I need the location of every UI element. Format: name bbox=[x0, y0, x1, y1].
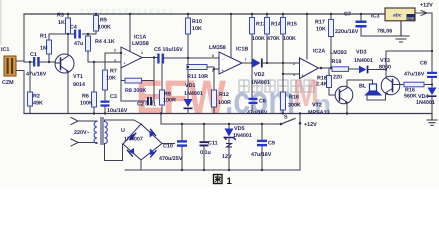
transformer T bbox=[94, 118, 107, 145]
svg-text:IC3: IC3 bbox=[371, 14, 379, 20]
svg-text:2: 2 bbox=[114, 49, 116, 53]
electret microphone IC1 bbox=[1, 47, 24, 86]
wire C5 to IC1B - input bbox=[164, 57, 218, 59]
svg-text:C10: C10 bbox=[163, 144, 173, 150]
op-amp IC1A LM358 bbox=[114, 35, 149, 69]
svg-text:47u: 47u bbox=[74, 41, 83, 47]
svg-text:6: 6 bbox=[212, 54, 214, 58]
svg-text:10u/16V: 10u/16V bbox=[107, 108, 128, 114]
svg-text:C6: C6 bbox=[259, 99, 266, 105]
wire IC1B V+ stub bbox=[230, 14, 232, 57]
svg-text:10K: 10K bbox=[192, 26, 202, 32]
wire VD3 to node A bbox=[369, 69, 387, 71]
svg-text:MPSA13: MPSA13 bbox=[308, 110, 330, 116]
resistor R8 300K bbox=[121, 78, 154, 94]
svg-text:S: S bbox=[284, 115, 288, 121]
resistor R16 560K bbox=[393, 82, 433, 99]
svg-text:100R: 100R bbox=[163, 98, 176, 104]
ground bottom right bbox=[427, 114, 437, 126]
svg-text:2: 2 bbox=[293, 62, 295, 66]
svg-text:470u/25V: 470u/25V bbox=[159, 156, 183, 162]
svg-text:1N4001: 1N4001 bbox=[416, 100, 435, 106]
wire ground rail bbox=[24, 113, 432, 115]
svg-text:CZM: CZM bbox=[2, 80, 14, 86]
wire R10 node down bbox=[187, 58, 189, 99]
resistor R6 100K bbox=[80, 61, 97, 115]
wire R4 to IC1A + input bbox=[88, 61, 121, 63]
svg-text:abc: abc bbox=[393, 13, 402, 19]
resistor R1 1M bbox=[40, 34, 52, 64]
svg-text:R1: R1 bbox=[40, 34, 47, 40]
svg-text:7: 7 bbox=[245, 58, 247, 62]
transistor VT1 9014 bbox=[55, 54, 85, 88]
svg-text:100K: 100K bbox=[252, 36, 265, 42]
capacitor C10 470u/25V bbox=[159, 123, 187, 171]
svg-text:IC2A: IC2A bbox=[313, 49, 325, 55]
resistor R19 220 bbox=[331, 59, 359, 81]
svg-text:+: + bbox=[302, 74, 304, 78]
wire left vertical from rail to mic bbox=[23, 14, 25, 114]
svg-text:IC1B: IC1B bbox=[236, 47, 248, 53]
svg-text:R5: R5 bbox=[100, 18, 107, 24]
svg-text:220: 220 bbox=[333, 75, 342, 81]
svg-text:1N4001: 1N4001 bbox=[251, 80, 270, 86]
resistor R3 1K bbox=[57, 13, 71, 36]
svg-text:+: + bbox=[222, 69, 224, 73]
svg-text:R10: R10 bbox=[192, 19, 202, 25]
diode VD2 1N4001 bbox=[251, 59, 270, 87]
wire PSU ground rail bbox=[125, 114, 300, 171]
svg-text:+12V: +12V bbox=[304, 122, 317, 128]
voltage regulator IC3 78L06 bbox=[371, 8, 415, 35]
svg-text:10K: 10K bbox=[106, 76, 116, 82]
svg-text:R12: R12 bbox=[219, 92, 229, 98]
svg-text:R7: R7 bbox=[110, 69, 117, 75]
resistor R2 49K bbox=[28, 61, 43, 114]
wire VT1 emitter bbox=[67, 71, 69, 114]
wire IC1A V+ stub bbox=[129, 14, 131, 52]
capacitor C8 47u/16V bbox=[404, 61, 437, 79]
svg-text:VD5: VD5 bbox=[234, 126, 245, 132]
svg-text:1N4007: 1N4007 bbox=[124, 137, 143, 143]
svg-text:U: U bbox=[121, 128, 125, 134]
svg-text:100K: 100K bbox=[283, 36, 296, 42]
svg-text:LM393: LM393 bbox=[330, 50, 347, 56]
resistor R15 100K bbox=[281, 13, 297, 63]
svg-text:1K: 1K bbox=[58, 20, 65, 26]
wire C1 to VT1 base bbox=[40, 61, 56, 63]
svg-text:VT2: VT2 bbox=[312, 103, 322, 109]
svg-text:220u/16V: 220u/16V bbox=[335, 29, 359, 35]
svg-text:IC1: IC1 bbox=[1, 47, 9, 53]
speaker BL bbox=[359, 84, 381, 96]
bridge rectifier U 1N4007x4 bbox=[121, 124, 162, 160]
svg-text:47u/16V: 47u/16V bbox=[404, 72, 425, 78]
wire secondary bottom to bridge left corner bbox=[105, 144, 123, 161]
wire VT2 emitter bbox=[346, 102, 348, 114]
svg-text:R8 300K: R8 300K bbox=[125, 88, 146, 94]
svg-text:C9: C9 bbox=[268, 141, 275, 147]
svg-text:+12V: +12V bbox=[420, 3, 433, 9]
resistor R14 470K bbox=[265, 13, 281, 63]
wire VD2 to IC2A bbox=[263, 62, 300, 64]
svg-text:12V: 12V bbox=[222, 154, 232, 160]
svg-text:C1: C1 bbox=[30, 52, 37, 58]
watermark EFW.com.cn + gray CJK chars + green scan remnant bbox=[0, 0, 331, 123]
svg-text:R3: R3 bbox=[57, 13, 64, 19]
wire ground-rail tie at x161 bbox=[160, 114, 162, 125]
svg-text:C11: C11 bbox=[208, 141, 218, 147]
resistor R4 4.1K bbox=[86, 33, 115, 62]
wire IC1B + stub bbox=[214, 68, 218, 70]
svg-text:BL: BL bbox=[359, 84, 367, 90]
capacitor C3 10u/16V bbox=[101, 94, 128, 115]
wire bridge right corner to C10 bbox=[162, 143, 175, 145]
svg-text:1N4001: 1N4001 bbox=[354, 58, 373, 64]
svg-text:78L06: 78L06 bbox=[377, 29, 392, 35]
wire collector node bbox=[49, 33, 96, 35]
transistor VT3 8050 bbox=[379, 58, 400, 95]
svg-text:8050: 8050 bbox=[379, 65, 391, 71]
svg-text:R15: R15 bbox=[287, 22, 297, 28]
svg-text:C2 0.01: C2 0.01 bbox=[137, 102, 156, 108]
svg-text:100R: 100R bbox=[218, 100, 231, 106]
svg-text:1M: 1M bbox=[40, 46, 48, 52]
ground IC3 bbox=[393, 21, 409, 42]
transistor VT2 MPSA13 bbox=[308, 86, 353, 116]
svg-text:R17: R17 bbox=[315, 20, 325, 26]
svg-text:R14: R14 bbox=[271, 22, 281, 28]
resistor R11 10R bbox=[187, 65, 214, 91]
diode VD1 1N4001 bbox=[184, 83, 203, 114]
capacitor C1 47u/16V bbox=[26, 52, 47, 78]
svg-text:R16: R16 bbox=[289, 95, 299, 101]
resistor R17 10K bbox=[315, 13, 334, 69]
svg-text:100K: 100K bbox=[98, 25, 111, 31]
resistor R13 100K bbox=[250, 13, 266, 63]
op-amp IC1B LM358 bbox=[209, 45, 248, 74]
wire mic node to C1 bbox=[24, 61, 33, 63]
svg-text:C5 10u/16V: C5 10u/16V bbox=[154, 47, 183, 53]
wire +12V column bbox=[415, 13, 432, 114]
diode VD3 1N4001 bbox=[354, 50, 373, 74]
svg-text:+: + bbox=[124, 62, 126, 66]
svg-text:VD1: VD1 bbox=[185, 83, 196, 89]
capacitor C5 10u/16V bbox=[154, 47, 183, 64]
svg-text:47u/16V: 47u/16V bbox=[251, 152, 272, 158]
resistor R18 2.4K bbox=[316, 68, 335, 95]
wire top +6V rail bbox=[24, 13, 384, 15]
svg-text:LM358: LM358 bbox=[209, 45, 226, 51]
svg-text:560K: 560K bbox=[404, 94, 417, 100]
wire VT3 emitter to speaker bottom bbox=[367, 93, 386, 101]
capacitor C9 47u/16V bbox=[251, 123, 275, 171]
svg-text:3: 3 bbox=[114, 59, 116, 63]
wire +12V raw rail bbox=[161, 123, 281, 125]
svg-text:470K: 470K bbox=[267, 36, 280, 42]
svg-text:2.4K: 2.4K bbox=[316, 82, 327, 88]
svg-text:R11 10R: R11 10R bbox=[187, 74, 208, 80]
svg-text:47u/16V: 47u/16V bbox=[26, 72, 47, 78]
wire IC2A V+ stub bbox=[306, 14, 308, 59]
svg-text:VT1: VT1 bbox=[73, 74, 83, 80]
wire secondary top to bridge top corner bbox=[105, 120, 142, 124]
resistor R12 100R bbox=[212, 90, 231, 114]
svg-text:C4: C4 bbox=[70, 25, 77, 31]
svg-text:VT3: VT3 bbox=[380, 58, 390, 64]
svg-text:5: 5 bbox=[212, 69, 214, 73]
wire IC1A inverting feedback vertical bbox=[120, 53, 122, 101]
wire bridge bottom corner to ground rail bbox=[140, 160, 142, 170]
svg-text:R6: R6 bbox=[82, 94, 89, 100]
svg-text:9014: 9014 bbox=[73, 82, 85, 88]
wire IC2A + input stub bbox=[283, 73, 300, 75]
svg-text:R19: R19 bbox=[332, 59, 342, 65]
svg-text:LM358: LM358 bbox=[132, 41, 149, 47]
svg-text:10K: 10K bbox=[316, 27, 326, 33]
+12V terminal top right bbox=[420, 3, 433, 16]
resistor R7 10K bbox=[103, 53, 122, 100]
svg-text:VD2: VD2 bbox=[254, 72, 265, 78]
svg-text:300K: 300K bbox=[288, 103, 301, 109]
AC input arrows 220V bbox=[71, 118, 97, 147]
capacitor C11 0.1u bbox=[200, 123, 218, 171]
resistor R5 100K bbox=[94, 13, 111, 34]
svg-text:0.1u: 0.1u bbox=[200, 150, 211, 156]
svg-text:3: 3 bbox=[293, 73, 295, 77]
caption Fig 1 bbox=[214, 175, 233, 188]
wire VT3 collector to node A bbox=[386, 51, 432, 78]
capacitor C2 0.01 bbox=[121, 97, 156, 108]
svg-text:VD3: VD3 bbox=[356, 50, 367, 56]
svg-text:1: 1 bbox=[227, 176, 233, 187]
capacitor C7 220u/16V bbox=[335, 12, 393, 37]
svg-text:C7: C7 bbox=[344, 12, 351, 18]
switch S bbox=[280, 115, 302, 126]
wire VT1 collector bbox=[67, 34, 69, 56]
svg-text:1N4001: 1N4001 bbox=[184, 91, 203, 97]
zener diode VD5 12V bbox=[222, 123, 252, 171]
svg-text:1: 1 bbox=[141, 51, 143, 55]
svg-text:220V~: 220V~ bbox=[74, 130, 90, 136]
wire IC2A output bbox=[319, 67, 332, 69]
wire VT2 collector to speaker top bbox=[347, 80, 373, 88]
resistor R9 100R bbox=[160, 64, 176, 114]
resistor R16 300K bbox=[281, 63, 301, 115]
resistor R10 10K bbox=[186, 13, 202, 59]
svg-text:GND: GND bbox=[407, 16, 415, 20]
wire IC1B output bbox=[242, 62, 252, 64]
svg-text:47u/16V: 47u/16V bbox=[247, 110, 268, 116]
diode VD4 1N4001 bbox=[416, 88, 437, 107]
capacitor C4 47u bbox=[70, 25, 83, 48]
capacitor C6 47u/16V bbox=[247, 63, 268, 116]
svg-text:R4 4.1K: R4 4.1K bbox=[95, 39, 115, 45]
svg-text:49K: 49K bbox=[33, 101, 43, 107]
svg-text:C3: C3 bbox=[110, 94, 117, 100]
svg-text:R2: R2 bbox=[33, 94, 40, 100]
wire IC1A output node bbox=[142, 58, 157, 102]
op-amp IC2A LM393 bbox=[293, 49, 347, 79]
svg-text:1N4001: 1N4001 bbox=[233, 133, 252, 139]
svg-text:100K: 100K bbox=[80, 101, 93, 107]
svg-text:IC1A: IC1A bbox=[134, 35, 146, 41]
svg-text:C8: C8 bbox=[420, 61, 427, 67]
